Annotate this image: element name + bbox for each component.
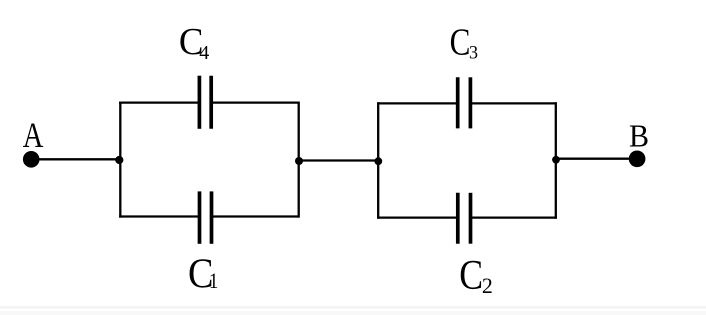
svg-text:C: C: [450, 21, 471, 64]
svg-text:2: 2: [482, 272, 493, 297]
svg-text:3: 3: [469, 42, 478, 64]
svg-text:A: A: [23, 116, 44, 156]
svg-text:4: 4: [199, 42, 209, 64]
svg-text:C: C: [459, 253, 483, 299]
svg-text:1: 1: [209, 270, 218, 294]
svg-text:B: B: [629, 119, 649, 154]
